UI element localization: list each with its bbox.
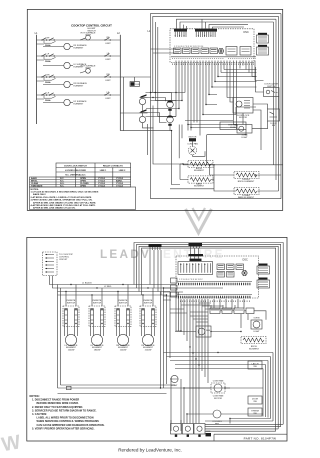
wire branch 4 bbox=[37, 99, 64, 103]
junction dots p1 bbox=[171, 76, 247, 166]
wire left risers bbox=[58, 285, 171, 389]
svg-text:LIGHT: LIGHT bbox=[85, 68, 92, 70]
svg-text:COOKTOP CONTROL CIRCUIT: COOKTOP CONTROL CIRCUIT bbox=[71, 23, 112, 27]
relay coil K9 bbox=[167, 115, 174, 125]
node L1 (control feed) bbox=[148, 22, 180, 131]
connector P9 bbox=[257, 45, 269, 55]
relay K6 bbox=[227, 264, 235, 270]
infinite switch S13 + surface element E7 bbox=[115, 285, 131, 352]
relay K3 bbox=[192, 48, 200, 54]
infinite switch S12 + surface element E6 bbox=[89, 288, 105, 352]
svg-text:CONV FAN: CONV FAN bbox=[213, 380, 224, 383]
infinite switch S14 + surface element E8 bbox=[140, 288, 156, 352]
surface element E2 bbox=[64, 62, 87, 68]
svg-text:W: W bbox=[0, 431, 22, 456]
connector P11 column bbox=[171, 278, 178, 297]
beeper BZ2 bbox=[242, 270, 248, 276]
svg-text:CIRCUIT: CIRCUIT bbox=[59, 259, 68, 261]
hot surface light H2 bbox=[80, 65, 96, 74]
hot surface light H1 bbox=[80, 31, 96, 40]
svg-text:LABEL ALL WIRES PRIOR TO DISCO: LABEL ALL WIRES PRIOR TO DISCONNECTION bbox=[37, 417, 94, 420]
timer module T1 bbox=[130, 82, 140, 87]
svg-text:LIMIT: LIMIT bbox=[105, 98, 111, 100]
svg-text:MOTOR: MOTOR bbox=[214, 398, 222, 400]
svg-text:ELEMENT: ELEMENT bbox=[194, 170, 205, 172]
lower bake element R4 bbox=[234, 187, 259, 199]
svg-text:RELAY CONTACTS: RELAY CONTACTS bbox=[103, 164, 123, 167]
broil element R5 bbox=[241, 336, 266, 350]
svg-text:DUAL: DUAL bbox=[45, 60, 52, 63]
relay contact DLB-1 bbox=[139, 94, 147, 104]
wire rung 4 bbox=[37, 94, 121, 96]
clock module U1a bbox=[226, 47, 237, 56]
surface element E4 bbox=[64, 99, 87, 105]
svg-text:BAKE ONLY.: BAKE ONLY. bbox=[33, 193, 46, 196]
svg-text:FUSE: FUSE bbox=[230, 127, 236, 129]
svg-text:SW: SW bbox=[253, 366, 256, 368]
wire lower links p2 bbox=[171, 347, 264, 431]
oven control board U1 (dashed outline) bbox=[170, 29, 254, 63]
svg-text:5. VERIFY PROPER OPERATION AFT: 5. VERIFY PROPER OPERATION AFTER SERVICI… bbox=[32, 427, 95, 430]
wire bottom collector bbox=[58, 385, 231, 394]
wire ladder bottom run bbox=[120, 130, 171, 132]
ground lug G1 bbox=[206, 431, 212, 436]
connector P3 (power plug) bbox=[43, 252, 74, 276]
broil element R1 bbox=[180, 160, 213, 172]
svg-text:L1 BLACK: L1 BLACK bbox=[82, 282, 92, 285]
wire rung 2 bbox=[37, 55, 121, 57]
cooling fan M4 bbox=[212, 410, 222, 425]
pin row J1 bbox=[171, 57, 256, 59]
svg-text:SWITCH: SWITCH bbox=[144, 303, 153, 305]
connector P4 bbox=[189, 243, 203, 254]
oven control board U2 (dashed outline) bbox=[176, 256, 259, 298]
svg-text:LIMIT: LIMIT bbox=[105, 43, 111, 45]
svg-text:MOTOR: MOTOR bbox=[189, 137, 197, 139]
door switch S16 bbox=[248, 396, 262, 404]
lock motor M1 bbox=[233, 98, 253, 120]
connector P5 (wide body) bbox=[178, 254, 213, 274]
connector P10 bbox=[257, 278, 270, 289]
svg-text:FAN: FAN bbox=[215, 422, 220, 425]
pin row J3 bbox=[178, 295, 253, 298]
upper broil element R3 bbox=[234, 171, 259, 183]
title COOKTOP CONTROL CIRCUIT bbox=[71, 23, 112, 32]
bake element R2 bbox=[180, 164, 214, 188]
relay K7c bbox=[227, 272, 235, 278]
wire cross runs bbox=[146, 77, 257, 117]
footer credit bbox=[118, 448, 182, 453]
svg-text:CYCLE: CYCLE bbox=[98, 186, 106, 188]
svg-text:AFTER 40 MIN. LINE 1/BAKE CYCL: AFTER 40 MIN. LINE 1/BAKE CYCLING ONLY A… bbox=[33, 201, 97, 204]
svg-text:WHEN SERVICING CONTROLS. WIRIN: WHEN SERVICING CONTROLS. WIRING PROBLEMS bbox=[37, 420, 100, 423]
power terminal block TB2 bbox=[171, 424, 206, 437]
switch S5 (dual, RR) bbox=[41, 74, 55, 83]
switch S1 (dual, RF) bbox=[41, 37, 55, 46]
svg-text:L2 RED: L2 RED bbox=[104, 286, 112, 288]
svg-text:LIGHT: LIGHT bbox=[85, 34, 92, 36]
svg-text:1-CYCLES 40 SECONDS, 8 SECONDS: 1-CYCLES 40 SECONDS, 8 SECONDS BROIL ONL… bbox=[31, 191, 99, 194]
notes block panel 2 bbox=[30, 395, 105, 430]
svg-text:LINE 2: LINE 2 bbox=[119, 170, 126, 172]
svg-text:NOTES:: NOTES: bbox=[31, 189, 40, 191]
svg-text:3. SERVICER PLEASE RETURN DIAG: 3. SERVICER PLEASE RETURN DIAGRAM TO RAN… bbox=[32, 409, 97, 412]
svg-text:4. CAUTION:: 4. CAUTION: bbox=[32, 413, 47, 416]
wire surface bus runs bbox=[58, 282, 177, 296]
panel 2 border bbox=[27, 237, 287, 441]
thermal switch S17 bbox=[248, 408, 262, 416]
svg-text:N.C.: N.C. bbox=[60, 186, 65, 188]
svg-text:RR: RR bbox=[46, 74, 50, 76]
connector P7 bbox=[257, 264, 270, 275]
part number box bbox=[214, 434, 287, 441]
junction dots p2 bbox=[160, 287, 242, 419]
watermark LEADVENTURE bbox=[100, 247, 225, 261]
svg-text:2. REFER ONLY TO FEATURES EQUI: 2. REFER ONLY TO FEATURES EQUIPPED. bbox=[32, 406, 83, 409]
wire left feed bundle bbox=[148, 106, 247, 199]
wire nested mid runs bbox=[164, 353, 274, 422]
surface element E3 bbox=[64, 81, 88, 87]
svg-text:SWITCH: SWITCH bbox=[93, 303, 102, 305]
wire L2 feed to control bbox=[120, 77, 150, 131]
relay K4b bbox=[210, 48, 218, 54]
relay DLB K8 bbox=[196, 326, 211, 337]
svg-text:DLB: DLB bbox=[136, 84, 141, 86]
wire branch 1 bbox=[37, 44, 64, 47]
wire rung 1 bbox=[37, 39, 121, 41]
wire rung 3 bbox=[37, 76, 121, 78]
svg-text:1 2 3 4 5 6 7 8 9 10 11 12: 1 2 3 4 5 6 7 8 9 10 11 12 bbox=[179, 279, 203, 281]
wire label band bbox=[172, 63, 254, 65]
wire branch 2 bbox=[37, 60, 64, 66]
svg-text:Rendered by LeadVenture, Inc.: Rendered by LeadVenture, Inc. bbox=[118, 448, 182, 453]
infinite switch S11 + surface element E5 bbox=[63, 285, 79, 352]
svg-text:BAKE ELEMENT: BAKE ELEMENT bbox=[238, 196, 255, 199]
switch S6 (limiter rung3) bbox=[104, 74, 111, 82]
svg-text:CYCLE: CYCLE bbox=[116, 186, 124, 188]
wire pin drops bbox=[176, 61, 264, 136]
wire relay links bbox=[143, 92, 172, 131]
wire top nested runs bbox=[151, 14, 282, 58]
svg-text:3-FIRST 40 MIN. LINE 1/BROIL O: 3-FIRST 40 MIN. LINE 1/BROIL OPERATION O… bbox=[31, 199, 93, 202]
svg-text:ELEMENT: ELEMENT bbox=[74, 86, 85, 88]
notes box panel 1 bbox=[30, 187, 136, 210]
relay K5 bbox=[217, 264, 225, 270]
relay K4 bbox=[201, 48, 209, 54]
svg-text:LIMIT: LIMIT bbox=[105, 80, 111, 82]
oven light LT2 bbox=[251, 318, 262, 333]
svg-text:PART NO. 8104P7W: PART NO. 8104P7W bbox=[244, 436, 277, 440]
svg-text:1 2 3 4 5 6 7 8 9 10 11 12 13: 1 2 3 4 5 6 7 8 9 10 11 12 13 14 bbox=[174, 46, 204, 48]
svg-text:NOTICE:: NOTICE: bbox=[30, 395, 40, 398]
svg-text:AFTER 40 MIN. LINE 1/BAKE CYCL: AFTER 40 MIN. LINE 1/BAKE CYCLE ON. bbox=[33, 207, 76, 210]
connector P2 bbox=[195, 29, 217, 37]
panel 1 border bbox=[27, 9, 282, 210]
svg-text:DSC: DSC bbox=[243, 259, 248, 262]
watermark logo V bbox=[186, 208, 212, 233]
wire links under box p2 bbox=[170, 288, 235, 331]
pin labels row p2 bbox=[179, 279, 203, 281]
latch switch S15 bbox=[248, 361, 262, 369]
svg-text:ELEMENT: ELEMENT bbox=[74, 104, 85, 106]
svg-text:ELEMENT: ELEMENT bbox=[249, 349, 260, 351]
wire cluster links bbox=[227, 61, 279, 151]
relay contact DLB-2 bbox=[139, 109, 147, 122]
relay K2 bbox=[183, 48, 191, 54]
svg-text:1800W: 1800W bbox=[94, 350, 101, 352]
hot light H3 bbox=[171, 375, 178, 387]
wire label band p2 bbox=[180, 300, 250, 302]
relay K7 bbox=[236, 264, 244, 270]
svg-text:1. DISCONNECT RANGE FROM POWER: 1. DISCONNECT RANGE FROM POWER bbox=[32, 399, 79, 402]
svg-text:OPEN: OPEN bbox=[80, 186, 86, 188]
svg-text:2100W: 2100W bbox=[145, 350, 152, 352]
connector P1 bbox=[174, 29, 187, 37]
switch S3 (dual, LF) bbox=[41, 53, 55, 62]
svg-text:DLB: DLB bbox=[206, 330, 211, 332]
wire plug drop bbox=[50, 276, 58, 289]
svg-text:LIGHT: LIGHT bbox=[171, 385, 178, 387]
wire bottom converge bbox=[171, 414, 283, 431]
svg-text:LIGHT: LIGHT bbox=[253, 331, 260, 333]
svg-text:SW: SW bbox=[253, 401, 256, 403]
switch S7 (dual, LR) bbox=[41, 92, 55, 101]
relay coil K8 bbox=[167, 100, 174, 110]
lock cam switch S10 bbox=[268, 109, 280, 127]
wire right edge drops bbox=[274, 40, 282, 199]
terminal strip TB1 bbox=[210, 308, 254, 314]
module U1b bbox=[240, 47, 251, 56]
svg-text:DUAL: DUAL bbox=[45, 81, 52, 84]
svg-text:SWITCH: SWITCH bbox=[119, 303, 128, 305]
svg-text:BROIL ELEMENT: BROIL ELEMENT bbox=[238, 181, 255, 183]
svg-text:DOOR LOCK SWITCH: DOOR LOCK SWITCH bbox=[64, 165, 87, 167]
surface element E1 bbox=[64, 43, 87, 49]
svg-text:ELEMENT: ELEMENT bbox=[194, 186, 205, 188]
wire control drops p2 bbox=[181, 299, 244, 383]
wire element runs bbox=[151, 164, 284, 199]
relay K7b bbox=[217, 272, 225, 278]
svg-text:DUAL: DUAL bbox=[45, 99, 52, 102]
switch S4 (limiter rung2) bbox=[104, 53, 111, 61]
door latch switch S9 bbox=[264, 83, 280, 97]
svg-text:SWITCH: SWITCH bbox=[67, 303, 76, 305]
svg-text:LINE 1: LINE 1 bbox=[100, 170, 107, 172]
svg-text:OVEN: OVEN bbox=[254, 318, 260, 320]
svg-text:LIGHT: LIGHT bbox=[241, 137, 248, 139]
beeper BZ1 bbox=[218, 48, 224, 54]
svg-text:RR: RR bbox=[106, 74, 110, 76]
svg-text:2-AT BROIL-FULL RATE, LO BROIL: 2-AT BROIL-FULL RATE, LO BROIL-CYCLES AT… bbox=[31, 196, 93, 199]
svg-text:CAN CAUSE IMPROPER AND DANGERO: CAN CAUSE IMPROPER AND DANGEROUS OPERATI… bbox=[37, 424, 105, 427]
svg-text:1200W: 1200W bbox=[120, 350, 127, 352]
table: door lock switch / relay contacts bbox=[30, 163, 131, 188]
connector P4a bbox=[149, 244, 162, 295]
pin row J2 bbox=[178, 282, 253, 285]
svg-text:DSC: DSC bbox=[244, 31, 249, 34]
oven light LT1 bbox=[237, 125, 252, 139]
node L1 (cooktop bus) bbox=[35, 32, 38, 124]
thermal fuse TF1 bbox=[220, 122, 246, 130]
svg-text:BEFORE REMOVING WIRE COVER.: BEFORE REMOVING WIRE COVER. bbox=[37, 402, 80, 405]
wire mid links p2 bbox=[163, 288, 266, 332]
svg-text:SWITCH: SWITCH bbox=[267, 86, 276, 88]
svg-text:1200W: 1200W bbox=[68, 350, 75, 352]
switch S2 (limiter rung1) bbox=[104, 37, 111, 45]
connector P8 bbox=[257, 33, 269, 43]
node L2 (cooktop bus) bbox=[117, 32, 120, 131]
convection fan M2 bbox=[187, 137, 205, 157]
svg-text:LEADV: LEADV bbox=[100, 247, 151, 261]
wire branch 3 bbox=[37, 81, 64, 85]
svg-text:ELEMENT: ELEMENT bbox=[74, 48, 85, 50]
convection motor M3 bbox=[211, 380, 225, 400]
relay K1 bbox=[174, 48, 182, 54]
pin labels row bbox=[174, 46, 204, 48]
wire top nested runs p2 bbox=[134, 243, 283, 432]
switch S8 (limiter rung4) bbox=[104, 92, 111, 100]
svg-text:4-AFTER 40 MIN. LINE 1/BAKE CY: 4-AFTER 40 MIN. LINE 1/BAKE CYCLING ONLY… bbox=[31, 204, 96, 207]
svg-text:LIMIT: LIMIT bbox=[105, 59, 111, 61]
